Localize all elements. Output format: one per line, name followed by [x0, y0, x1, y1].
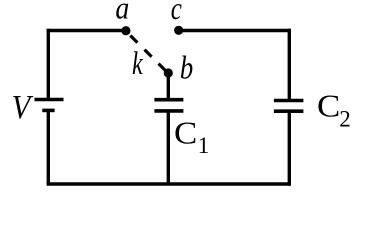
svg-text:k: k [132, 45, 144, 82]
svg-text:b: b [180, 50, 193, 86]
svg-text:2: 2 [339, 107, 351, 132]
wire top-left segment [47, 29, 126, 32]
svg-text:1: 1 [198, 133, 210, 158]
capacitor C2 bottom plate [274, 109, 304, 113]
svg-text:C: C [174, 116, 197, 151]
switch k dashed arm dash 3 [159, 64, 166, 71]
node c (dot) [174, 26, 183, 35]
battery V long plate [35, 98, 64, 102]
svg-text:V: V [12, 88, 34, 126]
switch k dashed arm dash 2 [145, 50, 152, 57]
node b (dot) [164, 68, 173, 77]
wire bottom segment [47, 182, 291, 185]
capacitor C1 top plate [154, 98, 183, 102]
svg-text:a: a [115, 0, 129, 26]
wire left upper (top corner to battery) [47, 29, 50, 100]
switch k dashed arm dash 1 [130, 36, 137, 43]
wire left lower (battery to bottom) [47, 110, 50, 184]
wire right upper (top corner to C2) [288, 29, 291, 101]
wire top-right segment [179, 29, 291, 32]
svg-text:C: C [317, 89, 340, 124]
capacitor C2 top plate [274, 99, 304, 103]
wire middle upper (node b to C1) [167, 73, 170, 100]
node a (dot) [121, 26, 130, 35]
battery V short plate [42, 109, 54, 113]
wire middle lower (C1 to bottom) [167, 111, 170, 184]
capacitor C1 bottom plate [154, 109, 183, 113]
svg-text:c: c [171, 0, 182, 27]
wire right lower (C2 to bottom) [288, 111, 291, 186]
